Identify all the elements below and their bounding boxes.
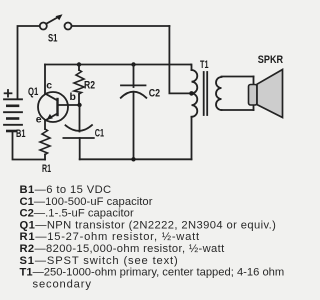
svg-text:C1—100-500-uF capacitor: C1—100-500-uF capacitor [20, 196, 153, 208]
svg-text:R2—8200-15,000-ohm resistor, ½: R2—8200-15,000-ohm resistor, ½-watt [20, 243, 226, 255]
svg-text:C2: C2 [149, 88, 160, 100]
svg-text:R1—15-27-ohm resistor, ½-watt: R1—15-27-ohm resistor, ½-watt [20, 231, 200, 243]
bottom rail C1/C2/T1 [80, 158, 192, 160]
svg-text:S1: S1 [48, 32, 58, 44]
base wire [58, 104, 80, 106]
node base [77, 103, 81, 107]
wire down from switch to T1 center tap [169, 26, 189, 93]
node C2 bottom [131, 157, 135, 161]
transistor Q1 [38, 92, 68, 122]
resistor R2 [78, 65, 80, 71]
svg-text:secondary: secondary [33, 278, 92, 290]
node R2 top [77, 62, 81, 66]
svg-text:T1: T1 [200, 59, 209, 71]
node C2 top [131, 62, 135, 66]
resistor R1 [44, 155, 46, 160]
svg-text:SPKR: SPKR [258, 54, 283, 66]
svg-text:T1—250-1000-ohm primary, cente: T1—250-1000-ohm primary, center tapped; … [20, 267, 285, 279]
svg-text:C2—.1-.5-uF capacitor: C2—.1-.5-uF capacitor [20, 208, 134, 220]
top rail (collector rail) [45, 64, 191, 66]
svg-text:R2: R2 [84, 80, 95, 92]
switch S1 [40, 14, 72, 29]
battery B1 [4, 99, 22, 131]
collector wire [44, 65, 46, 95]
emitter wire [44, 120, 46, 129]
wire battery+ to switch (left vertical + top run) [18, 26, 40, 99]
speaker SPKR [249, 70, 283, 118]
node T1 center tap [189, 91, 194, 96]
svg-text:Q1: Q1 [28, 86, 38, 98]
wire switch to right corner [72, 25, 170, 27]
svg-text:B1—6 to 15 VDC: B1—6 to 15 VDC [20, 184, 112, 196]
transformer T1 primary [191, 65, 197, 160]
svg-text:B1: B1 [16, 128, 26, 140]
svg-text:Q1—NPN transistor (2N2222, 2N3: Q1—NPN transistor (2N2222, 2N3904 or equ… [20, 219, 277, 231]
capacitor C1 [63, 105, 93, 159]
wire secondary to speaker (frame) [222, 77, 254, 111]
svg-text:b: b [70, 91, 76, 103]
svg-text:C1: C1 [95, 128, 104, 140]
svg-text:S1—SPST switch (see text): S1—SPST switch (see text) [20, 255, 179, 267]
svg-text:c: c [46, 79, 52, 91]
T1 core [204, 72, 208, 115]
transformer T1 secondary [216, 77, 222, 110]
svg-text:R1: R1 [42, 163, 51, 175]
capacitor C2 [121, 65, 147, 160]
wire battery- to R1 bottom [13, 132, 46, 160]
parts list [20, 184, 285, 290]
battery + sign [5, 90, 12, 97]
svg-text:e: e [36, 113, 42, 125]
